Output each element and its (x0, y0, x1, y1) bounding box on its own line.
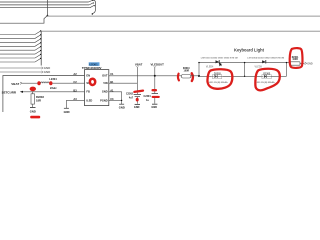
wire bus line 1 top (0, 1, 89, 3)
red annotation blob at R2303 junction (30, 87, 36, 92)
wire R2310 to keyboard block (191, 75, 199, 77)
wire VBAT to inductor (22, 82, 37, 84)
op-amp U2301 selected label highlight (89, 62, 100, 66)
diode D2304 alternative cell 2 (261, 73, 272, 78)
wire bus line 3 top (0, 7, 90, 9)
wire GND pin down (109, 92, 122, 104)
ground GND under C2304 (151, 104, 157, 109)
svg-text:LED GN (B) 828dBr: LED GN (B) 828dBr (209, 81, 228, 84)
red annotation dot left of L2304 (37, 81, 40, 85)
red annotation arc left of R2310 (177, 74, 180, 81)
node junction dot (47, 15, 49, 17)
svg-text:L2304: L2304 (49, 77, 57, 81)
svg-text:GND: GND (44, 70, 50, 74)
red annotation blob around D2302 (207, 69, 232, 89)
wire bus vertical with arc top-right (92, 0, 95, 14)
node VBAT pin (11, 82, 22, 86)
wire bus member 7 (0, 54, 41, 58)
svg-text:LED GN (B) 828dBr: LED GN (B) 828dBr (256, 81, 275, 84)
wire FB to R2303 (32, 92, 34, 94)
svg-text:GND: GND (307, 62, 313, 65)
wire bus entry diagonal 3 (90, 5, 94, 7)
svg-text:GND: GND (30, 110, 36, 114)
svg-text:A2: A2 (73, 72, 77, 76)
svg-text:D2302: D2302 (214, 73, 221, 75)
diode D2302 alternative cell 1 (211, 73, 222, 78)
node bus junction dots right (92, 0, 95, 6)
node VLEDOUT power flag (151, 63, 165, 68)
svg-text:100R: 100R (184, 71, 190, 73)
red annotation bar under GND (30, 116, 40, 119)
wire keyboard middle rail vertical (244, 63, 246, 77)
svg-text:D2303: D2303 (263, 73, 270, 75)
svg-text:VBAT: VBAT (135, 63, 143, 67)
wire bus member 3 (0, 39, 41, 43)
red annotation box around R2311 (290, 48, 303, 68)
ground GND under ILED (64, 108, 70, 114)
node junction dot OUT/VLEDOUT (154, 75, 156, 77)
node junction dot PGND (121, 100, 122, 101)
wire keyboard mid rail segment 3 (272, 75, 287, 77)
red annotation dot right of L2304 (49, 81, 52, 85)
node VBAT power flag (135, 63, 143, 68)
svg-text:VLEDOUT: VLEDOUT (151, 63, 165, 67)
wire bus member 4 (0, 42, 41, 46)
svg-text:ILED: ILED (86, 98, 92, 102)
resistor R2311 100R (290, 57, 300, 65)
capacitor C2302 4u7 (126, 93, 141, 104)
wire sheet gray line A (48, 15, 320, 17)
ground GND flag 1 left (0, 66, 50, 70)
svg-text:SETCURR: SETCURR (2, 91, 17, 95)
hierarchical block border top and left edges (3, 76, 85, 113)
wire VIN net (109, 82, 138, 84)
wire SW net inductor to IC (53, 82, 86, 84)
svg-text:GND: GND (134, 106, 140, 109)
resistor R2310 100R (181, 68, 190, 78)
capacitor C2304 1u (144, 94, 158, 104)
wire bus entry diagonal 2 (89, 3, 93, 5)
wire ILED net to ground (66, 100, 85, 108)
red annotation arc right of R2310 (192, 73, 193, 81)
svg-text:OUT: OUT (102, 73, 108, 77)
svg-text:C2304: C2304 (144, 95, 152, 98)
wire bus member 6 (0, 50, 41, 54)
wire bus entry diagonal 1 (89, 0, 93, 2)
node bus arrow dot (92, 13, 93, 14)
IC U2301 body (85, 70, 109, 106)
svg-text:LSH D304 D2303 GN02 GN04 KYB 0: LSH D304 D2303 GN02 GN04 KYB 0M (247, 57, 284, 60)
wire vertical drop x47.5 (47, 0, 49, 15)
wire OUT net (109, 75, 182, 77)
svg-text:18R: 18R (36, 98, 41, 102)
ground GND under IC (119, 104, 125, 109)
wire sheet gray line B (41, 30, 320, 32)
wire keyboard mid rail segment 1 (199, 75, 211, 77)
wire PGND pin (109, 99, 122, 101)
svg-text:VIN: VIN (103, 81, 107, 85)
red annotation marks on C2304 (153, 90, 159, 97)
svg-text:VBAT: VBAT (11, 82, 19, 86)
wire bus member 2 (0, 35, 41, 39)
svg-text:VLED5: VLED5 (255, 66, 263, 68)
node junction dots left rail (198, 62, 200, 77)
wire keyboard left rail (198, 63, 200, 77)
wire keyboard right rail vertical (286, 63, 288, 77)
diode D2301 top cell 1 (216, 60, 220, 64)
svg-text:22uH: 22uH (50, 86, 56, 90)
wire VLEDOUT vertical (154, 67, 156, 93)
svg-text:GND: GND (151, 106, 157, 109)
red annotation scribble ring on IC (90, 79, 95, 85)
svg-text:100R: 100R (292, 59, 298, 61)
svg-text:4u7: 4u7 (129, 96, 134, 99)
mouse cursor (219, 63, 222, 67)
wire bus member 8 (0, 58, 41, 62)
red annotation blob around D2303 (255, 69, 279, 91)
wire lower jog line y23 (0, 16, 48, 24)
wire keyboard top rail (199, 62, 290, 64)
ground K GND flag (305, 62, 313, 65)
wire bus member 1 (0, 31, 41, 35)
svg-text:A3: A3 (73, 97, 77, 101)
ground GND flag 2 left (0, 70, 50, 74)
diode D2303 top cell 2 (262, 60, 266, 64)
wire R2303 to ground (32, 104, 34, 107)
svg-text:Keyboard Light: Keyboard Light (234, 48, 265, 53)
red annotation dot on C2302 ground (136, 98, 139, 102)
svg-text:GND: GND (64, 110, 70, 114)
svg-text:PGND: PGND (100, 98, 108, 102)
svg-text:VLED4: VLED4 (206, 66, 214, 69)
wire bus member 5 (0, 46, 41, 50)
red annotation marks on C2302 (134, 91, 143, 92)
inductor L2304 22uH (41, 77, 58, 90)
wire VBAT vertical (136, 67, 138, 94)
wire bus line 2 top (0, 4, 89, 6)
svg-text:LSH D303 D2302 GN01 GN03 KYB 0: LSH D303 D2302 GN01 GN03 KYB 0M (201, 58, 238, 60)
ground GND under C2302 (134, 104, 140, 109)
svg-text:C2302: C2302 (126, 93, 134, 96)
svg-text:C2: C2 (73, 80, 77, 84)
node junction dot right rail (286, 62, 287, 63)
ground GND under R2303 (30, 108, 36, 114)
node bus member dots (40, 30, 41, 59)
svg-text:B3: B3 (73, 89, 77, 93)
wire left bus vertical (40, 31, 42, 65)
wire FB net (23, 91, 85, 93)
wire R2311 to ground flag (300, 62, 305, 64)
svg-text:EN: EN (86, 73, 90, 77)
node SETCURR label with arrow (2, 91, 23, 95)
svg-text:GND: GND (102, 90, 108, 94)
svg-text:GND: GND (119, 105, 125, 109)
node junction dots middle rail (244, 62, 245, 77)
wire keyboard mid rail segment 2 (223, 75, 261, 77)
svg-text:FB: FB (86, 90, 90, 94)
resistor R2303 18R (31, 94, 44, 104)
